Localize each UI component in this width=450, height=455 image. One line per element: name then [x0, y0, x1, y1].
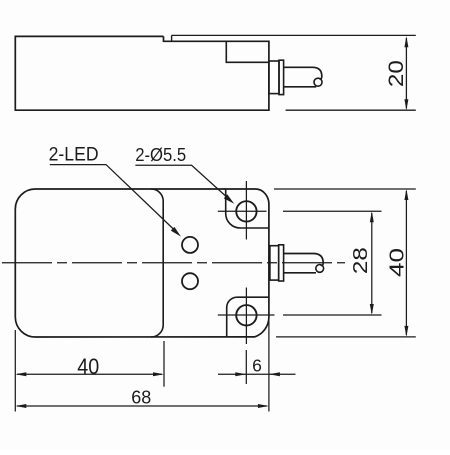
mounting hole top — [236, 201, 256, 221]
LED hole bottom — [182, 273, 198, 289]
arrow right at 6 left — [235, 372, 246, 376]
dimension line 20 — [405, 38, 407, 109]
mounting hole bottom — [236, 305, 256, 325]
mounting tab top — [226, 189, 269, 228]
extension line step bottom — [163, 341, 165, 387]
svg-text:2-Ø5.5: 2-Ø5.5 — [135, 145, 186, 165]
main view cable tube — [284, 254, 324, 266]
extension line right edge bottom — [268, 318, 270, 412]
crosshair vertical top hole — [245, 181, 247, 240]
side view body outline — [15, 36, 269, 110]
dimension line 68 — [17, 405, 267, 407]
arrow right 40 bottom — [153, 372, 164, 376]
arrow down 20 — [404, 99, 408, 110]
side view connector band — [279, 60, 284, 94]
svg-text:6: 6 — [252, 356, 262, 376]
extension line 28 bottom — [283, 314, 382, 316]
dimension line 40 right — [405, 191, 407, 335]
extension line left bottom — [14, 330, 16, 412]
arrow right 68 — [258, 404, 269, 408]
extension line 28 top — [283, 210, 382, 212]
arrow down 40 right — [404, 326, 408, 337]
side view sensing block — [226, 41, 269, 62]
side view cable tube — [284, 67, 322, 79]
arrow up 40 right — [404, 189, 408, 200]
side view raised plate tick — [171, 35, 173, 41]
svg-text:40: 40 — [386, 248, 408, 277]
arrow left 40 bottom — [15, 372, 26, 376]
arrow up 20 — [404, 36, 408, 47]
LED hole top — [182, 237, 198, 253]
arrow down 28 — [370, 304, 374, 315]
side view connector flange — [269, 61, 279, 94]
svg-text:40: 40 — [77, 354, 99, 379]
main view connector flange — [270, 246, 279, 280]
centre line main view — [2, 262, 345, 264]
leader arrow 2-D5.5 — [224, 194, 234, 204]
dimension line 6 — [218, 373, 296, 375]
leader arrow 2-LED — [171, 227, 181, 237]
crosshair vertical bottom hole — [245, 288, 247, 345]
main view connector band — [279, 245, 284, 281]
dimension line 28 — [371, 213, 373, 313]
extension line 40 bottom right — [276, 336, 416, 338]
arrow up 28 — [370, 211, 374, 222]
crosshair horizontal bottom hole — [218, 314, 275, 316]
main view cable loop — [316, 265, 324, 273]
extension line top of side view — [172, 34, 416, 36]
side view cable loop — [314, 78, 322, 86]
dimension line 40 bottom — [17, 373, 162, 375]
svg-text:20: 20 — [385, 60, 408, 87]
extension line bottom of side view — [286, 109, 416, 111]
svg-text:2-LED: 2-LED — [49, 145, 99, 166]
main view body outline — [15, 189, 269, 337]
main view internal step line — [151, 189, 163, 337]
arrow left 68 — [15, 404, 26, 408]
svg-text:28: 28 — [349, 247, 372, 274]
leader 2-D5.5 — [135, 165, 229, 199]
crosshair horizontal top hole — [218, 210, 267, 212]
extension line 40 top right — [274, 188, 416, 190]
extension line hole centre bottom — [245, 350, 247, 384]
arrow left at 6 right — [269, 372, 280, 376]
svg-text:68: 68 — [131, 387, 151, 408]
mounting tab bottom — [227, 297, 269, 337]
leader 2-LED — [50, 165, 177, 232]
